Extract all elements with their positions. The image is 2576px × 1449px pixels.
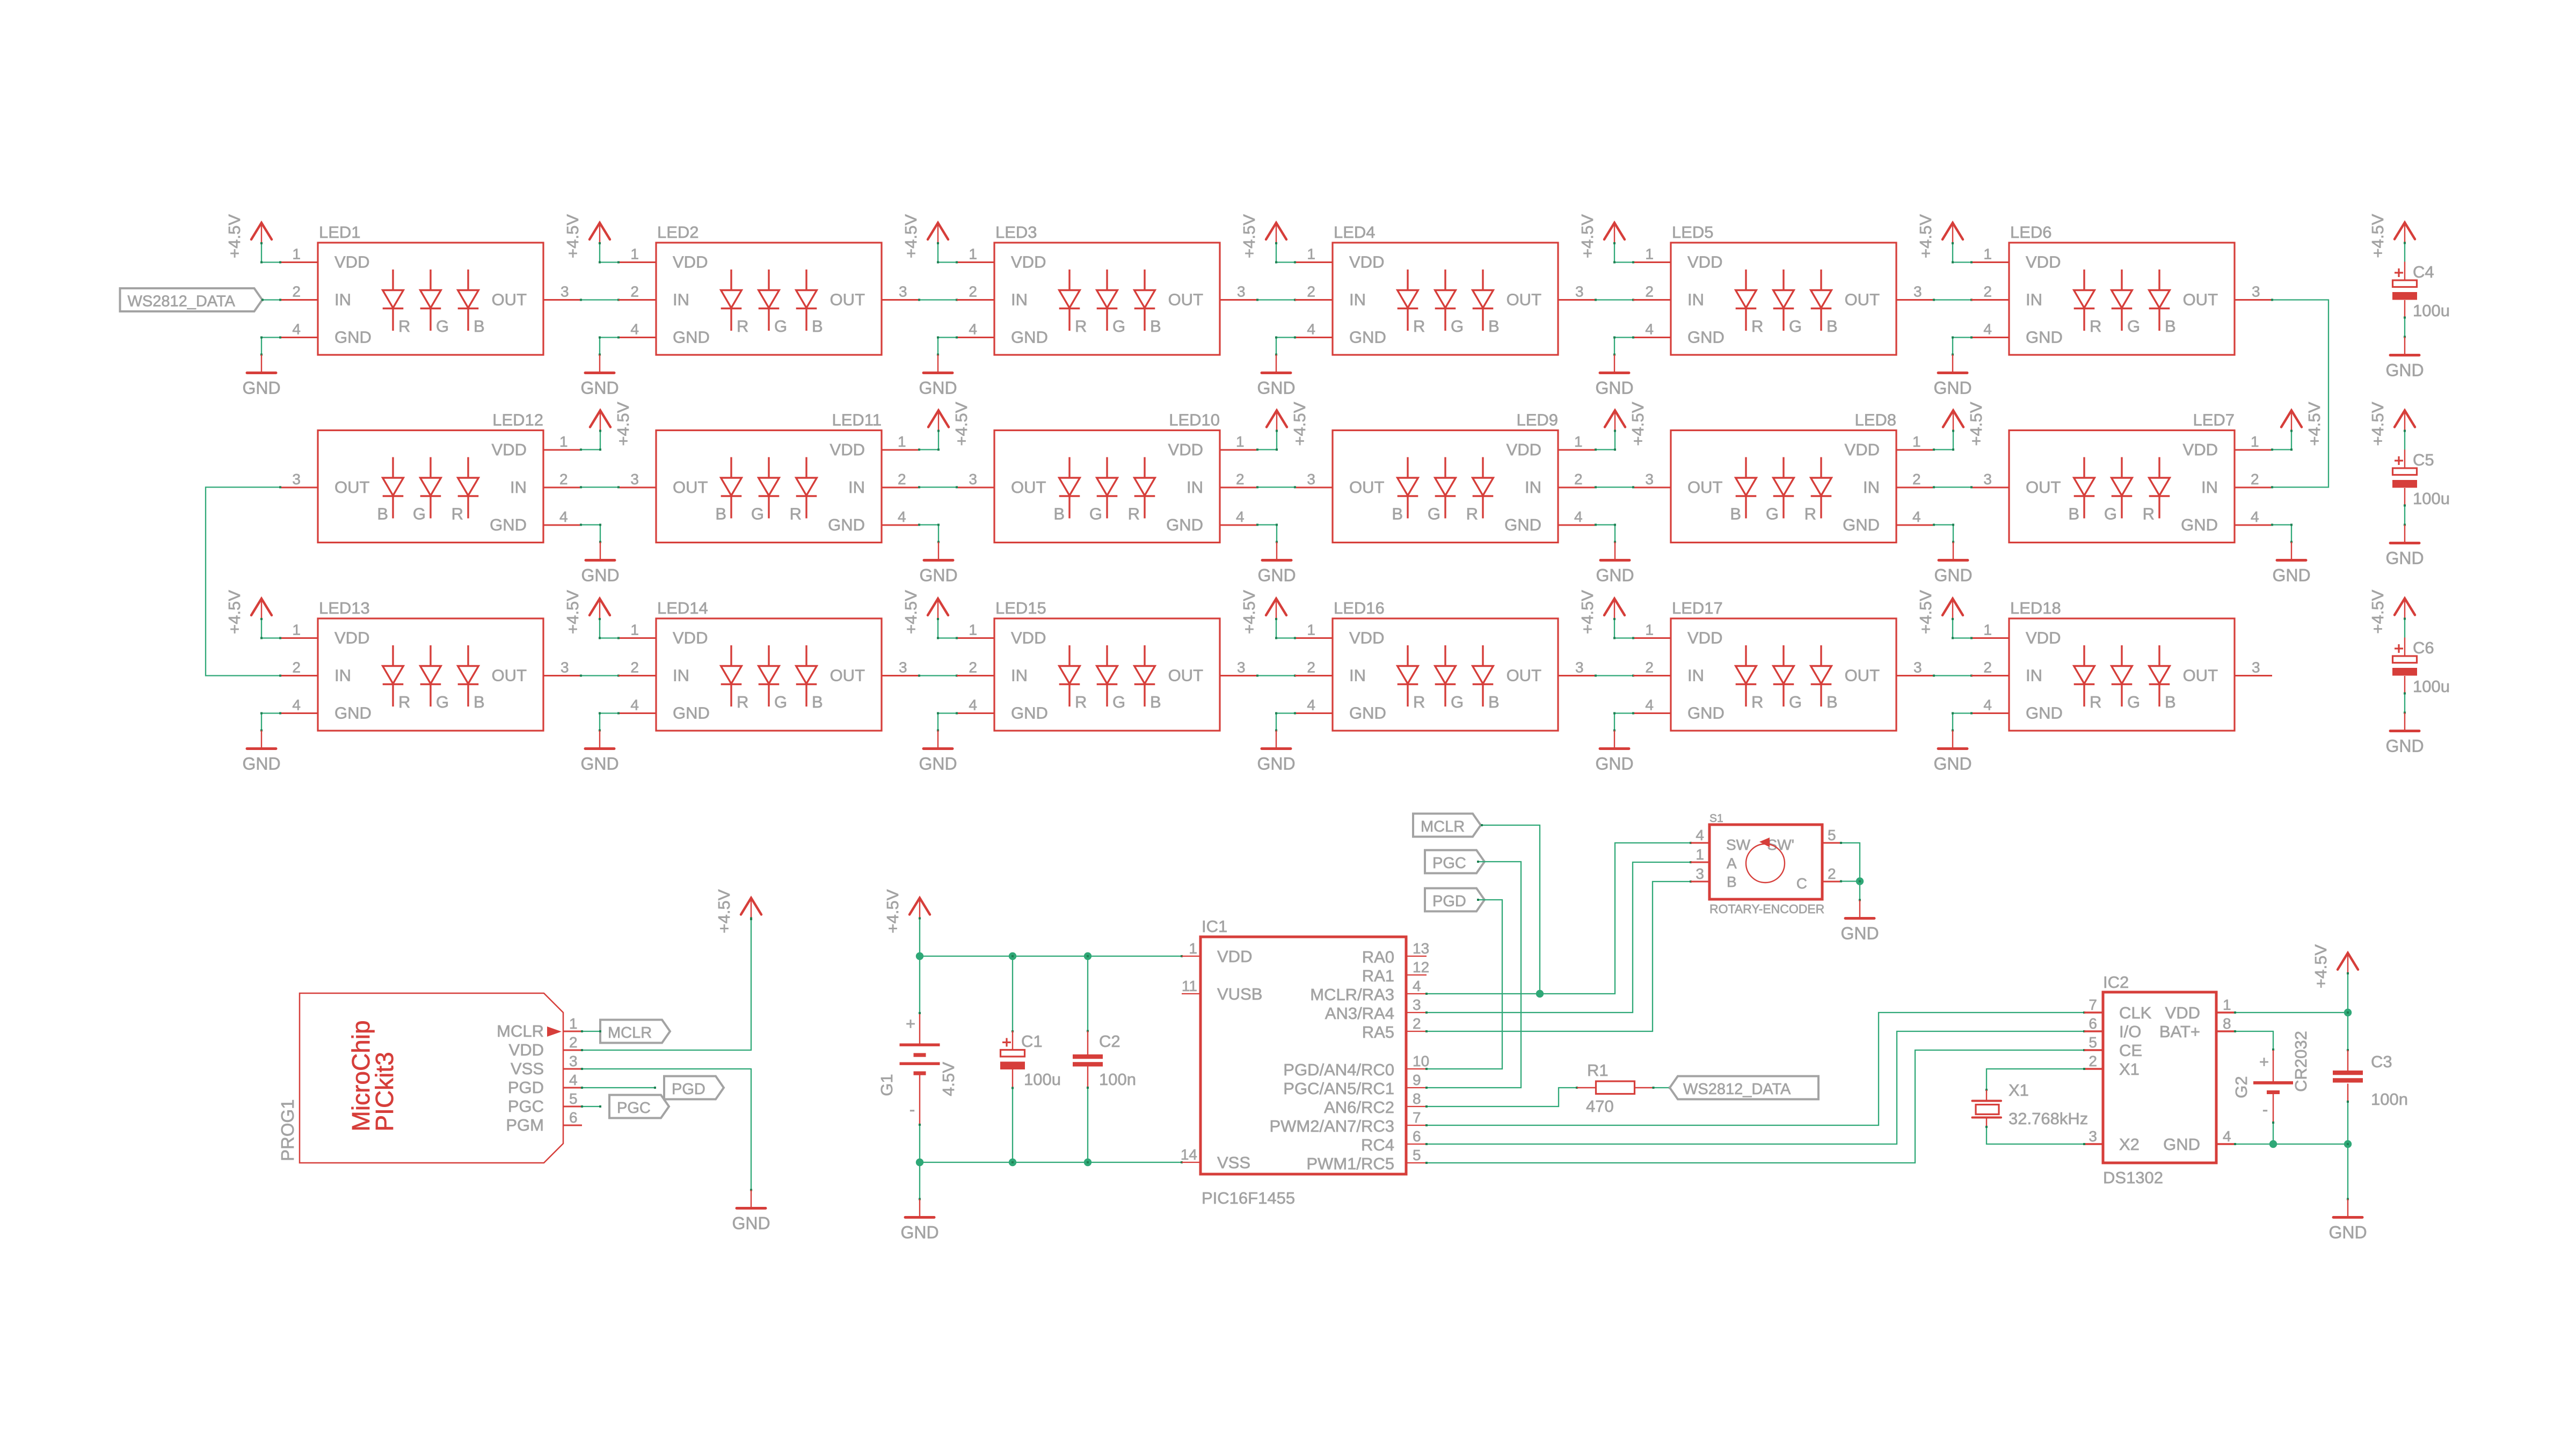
svg-text:2: 2 — [969, 283, 977, 300]
svg-text:GND: GND — [580, 378, 618, 398]
svg-text:IN: IN — [673, 290, 689, 309]
svg-text:VDD: VDD — [492, 440, 527, 459]
svg-text:+4.5V: +4.5V — [901, 590, 920, 634]
wire +4.5V rail to G1 plus — [919, 956, 920, 1013]
wire LED2.OUT to LED3.IN — [919, 299, 957, 300]
junction +4.5V rail at G1 — [916, 952, 923, 960]
wire LED12 pin1 to +4.5V — [581, 449, 600, 450]
wire LED9 pin1 to +4.5V — [1596, 449, 1615, 450]
svg-text:WS2812_DATA: WS2812_DATA — [1683, 1081, 1791, 1098]
wire LED1 pin4 to GND — [261, 337, 280, 338]
ground (LED13 GND) — [242, 712, 280, 774]
svg-text:LED17: LED17 — [1672, 599, 1723, 617]
wire LED18 pin4 to GND — [1953, 712, 1971, 713]
svg-text:B: B — [812, 693, 823, 711]
svg-text:OUT: OUT — [830, 666, 865, 685]
svg-text:1: 1 — [1645, 246, 1654, 263]
wire LED16.OUT to LED17.IN — [1596, 675, 1633, 676]
svg-text:GND: GND — [1843, 515, 1880, 534]
svg-text:7: 7 — [1413, 1109, 1421, 1126]
svg-text:1: 1 — [1307, 622, 1315, 638]
supply +4.5V (cap C5) — [2368, 402, 2415, 449]
svg-text:GND: GND — [1011, 704, 1048, 723]
wire crystal to IC2.3 X2 — [1986, 1127, 2084, 1144]
svg-text:R: R — [1466, 505, 1478, 523]
C4 top lead — [2404, 262, 2405, 281]
LED module LED3 (WS2812) — [957, 223, 1257, 355]
wire IC1.5 RC5 to IC2.5 CE — [1427, 1050, 2084, 1163]
svg-text:GND: GND — [2272, 566, 2310, 585]
svg-text:R: R — [1413, 317, 1425, 336]
svg-text:GND: GND — [581, 566, 619, 585]
svg-text:GND: GND — [1595, 754, 1633, 774]
ground (LED2 GND) — [580, 337, 618, 398]
LED module LED15 (WS2812) — [957, 599, 1257, 731]
wire LED11 pin1 to +4.5V — [919, 449, 938, 450]
wire S1.5 to GND junction — [1841, 843, 1860, 882]
svg-text:+4.5V: +4.5V — [2311, 944, 2330, 988]
svg-text:PROG1: PROG1 — [278, 1099, 297, 1161]
svg-text:3: 3 — [969, 471, 977, 487]
supply +4.5V (LED1 VDD) — [225, 214, 272, 263]
svg-text:3: 3 — [899, 283, 907, 300]
svg-text:4: 4 — [1413, 978, 1421, 994]
svg-text:GND: GND — [900, 1223, 938, 1242]
svg-text:C3: C3 — [2371, 1052, 2392, 1071]
connector PROG1 (MicroChip PICkit3) — [278, 993, 582, 1163]
svg-text:GND: GND — [2026, 328, 2063, 347]
svg-text:PWM1/RC5: PWM1/RC5 — [1306, 1154, 1394, 1173]
svg-text:GND: GND — [1257, 378, 1295, 398]
svg-text:+4.5V: +4.5V — [1578, 214, 1597, 258]
svg-text:VDD: VDD — [830, 440, 865, 459]
svg-text:B: B — [1150, 317, 1161, 336]
svg-text:R: R — [398, 317, 410, 336]
svg-text:3: 3 — [630, 471, 639, 487]
C6 top lead — [2404, 638, 2405, 657]
net label flag PGC at PROG1 — [609, 1095, 669, 1118]
IC U IC1 (PIC16F1455) — [1181, 917, 1429, 1207]
wire LED5.OUT to LED6.IN — [1934, 299, 1971, 300]
svg-text:OUT: OUT — [2183, 666, 2218, 685]
svg-text:C5: C5 — [2413, 450, 2434, 469]
svg-text:1: 1 — [1912, 433, 1921, 450]
wire LED14 pin4 to GND — [600, 712, 618, 713]
svg-text:LED1: LED1 — [319, 223, 361, 242]
LED module LED1 (WS2812) — [280, 223, 581, 355]
svg-text:3: 3 — [561, 659, 569, 676]
svg-text:3: 3 — [292, 471, 301, 487]
svg-text:+4.5V: +4.5V — [563, 590, 582, 634]
wire LED5 pin4 to GND — [1614, 337, 1633, 338]
junction GND net at C3 — [2344, 1140, 2352, 1148]
wire LED2 pin4 to GND — [600, 337, 618, 338]
wire LED8 pin4 to GND — [1934, 524, 1953, 525]
svg-text:LED13: LED13 — [319, 599, 370, 617]
LED module LED17 (WS2812) — [1633, 599, 1934, 731]
wire rail down to C1 — [1012, 956, 1013, 1031]
svg-text:+4.5V: +4.5V — [1967, 402, 1985, 446]
svg-text:8: 8 — [1413, 1090, 1421, 1107]
svg-text:+4.5V: +4.5V — [883, 889, 902, 933]
ground (LED3 GND) — [919, 337, 957, 398]
LED module LED16 (WS2812) — [1295, 599, 1596, 731]
svg-text:1: 1 — [559, 433, 568, 450]
LED module LED14 (WS2812) — [618, 599, 919, 731]
svg-text:3: 3 — [1237, 659, 1246, 676]
svg-text:S1: S1 — [1709, 812, 1723, 825]
svg-text:3: 3 — [899, 659, 907, 676]
svg-text:100u: 100u — [2413, 677, 2450, 696]
svg-text:GND: GND — [2181, 515, 2218, 534]
svg-text:4: 4 — [969, 697, 977, 713]
svg-text:VSS: VSS — [1217, 1153, 1250, 1172]
svg-text:2: 2 — [1574, 471, 1583, 487]
wire C1 to GND rail — [1012, 1088, 1013, 1163]
wire +4.5V to LED15 pin1 — [938, 637, 957, 638]
wire R1 to WS2812_DATA flag — [1654, 1087, 1670, 1088]
junction MCLR net — [1536, 990, 1544, 997]
svg-text:6: 6 — [2089, 1015, 2097, 1032]
svg-text:9: 9 — [1413, 1072, 1421, 1088]
svg-text:C1: C1 — [1021, 1032, 1043, 1051]
junction GND net at G2 — [2269, 1140, 2277, 1148]
svg-text:4: 4 — [969, 321, 977, 338]
ground (IC2/C3) — [2328, 1143, 2367, 1242]
LED module LED9 (WS2812) — [1295, 411, 1596, 543]
capacitor C5 (polarized 100u) — [2392, 450, 2450, 508]
svg-text:G: G — [413, 505, 426, 523]
svg-text:3: 3 — [1983, 471, 1992, 487]
wire IC2.2 X1 to crystal — [1986, 1069, 2084, 1090]
svg-text:GND: GND — [2328, 1223, 2367, 1242]
svg-text:12: 12 — [1413, 959, 1429, 975]
wire LED12 pin4 to GND — [581, 524, 600, 525]
svg-text:GND: GND — [1257, 754, 1295, 774]
wire LED10 pin4 to GND — [1257, 524, 1277, 525]
wire IC2.1 VDD to +4.5V — [2235, 1012, 2348, 1013]
wire LED11 pin4 to GND — [919, 524, 938, 525]
supply +4.5V (LED17 VDD) — [1578, 590, 1625, 638]
LED module LED11 (WS2812) — [618, 411, 919, 543]
ground (LED18 GND) — [1933, 712, 1971, 774]
svg-text:X1: X1 — [2009, 1081, 2029, 1100]
svg-text:2: 2 — [1645, 659, 1654, 676]
junction S1 common — [1856, 877, 1864, 885]
svg-text:R: R — [1128, 505, 1140, 523]
svg-text:R: R — [2090, 693, 2101, 711]
supply +4.5V (LED15 VDD) — [901, 590, 948, 638]
svg-text:2: 2 — [1307, 659, 1315, 676]
svg-text:1: 1 — [569, 1015, 578, 1032]
svg-text:VDD: VDD — [2026, 253, 2061, 272]
ground (G1) — [900, 1161, 938, 1242]
svg-text:1: 1 — [1983, 622, 1992, 638]
wire IC1.3 AN3/RA4 to S1 pinA — [1427, 862, 1691, 1013]
junction GND rail at C2 — [1084, 1159, 1091, 1166]
svg-text:PWM2/AN7/RC3: PWM2/AN7/RC3 — [1269, 1117, 1394, 1135]
wire PROG1.3 VSS to GND — [582, 1069, 751, 1190]
svg-text:+4.5V: +4.5V — [2368, 402, 2387, 446]
svg-text:+4.5V: +4.5V — [1240, 214, 1258, 258]
svg-text:R: R — [2143, 505, 2155, 523]
svg-text:100u: 100u — [2413, 489, 2450, 508]
svg-text:OUT: OUT — [1011, 478, 1046, 497]
LED module LED5 (WS2812) — [1633, 223, 1934, 355]
svg-text:VDD: VDD — [1687, 253, 1722, 272]
svg-text:+: + — [2259, 1052, 2269, 1071]
svg-text:OUT: OUT — [1687, 478, 1723, 497]
wire IC1.8 AN6/RC2 to R1 — [1427, 1088, 1577, 1106]
ground (LED9 GND) — [1596, 524, 1634, 585]
svg-text:+4.5V: +4.5V — [1916, 590, 1935, 634]
wire +4.5V to LED4 pin1 — [1276, 261, 1295, 263]
svg-text:5: 5 — [1828, 827, 1836, 843]
svg-text:LED8: LED8 — [1854, 411, 1896, 429]
svg-text:32.768kHz: 32.768kHz — [2009, 1109, 2088, 1128]
wire LED12.OUT to LED13.IN — [206, 487, 280, 676]
wire LED9.OUT to LED8.IN — [1596, 486, 1633, 487]
svg-text:+4.5V: +4.5V — [1578, 590, 1597, 634]
svg-text:4: 4 — [2251, 508, 2259, 525]
svg-text:B: B — [1488, 693, 1500, 711]
svg-text:VDD: VDD — [1168, 440, 1203, 459]
svg-text:R: R — [1075, 693, 1087, 711]
svg-text:PGC: PGC — [1432, 855, 1466, 872]
svg-text:G: G — [2127, 693, 2140, 711]
LED module LED8 (WS2812) — [1633, 411, 1934, 543]
ground (LED17 GND) — [1595, 712, 1633, 774]
supply +4.5V (LED14 VDD) — [563, 590, 610, 638]
wire +4.5V to LED1 pin1 — [261, 261, 280, 263]
svg-text:3: 3 — [1413, 996, 1421, 1013]
svg-text:IN: IN — [1011, 290, 1028, 309]
svg-text:+: + — [906, 1014, 915, 1033]
svg-text:G: G — [1112, 693, 1125, 711]
LED module LED13 (WS2812) — [280, 599, 581, 731]
svg-text:X1: X1 — [2119, 1060, 2140, 1079]
wire +4.5V to LED2 pin1 — [600, 261, 618, 263]
svg-text:VSS: VSS — [511, 1059, 544, 1078]
svg-text:GND: GND — [1595, 378, 1633, 398]
svg-text:G: G — [1428, 505, 1440, 523]
svg-text:VDD: VDD — [334, 253, 369, 272]
wire +4.5V to LED17 pin1 — [1614, 637, 1633, 638]
svg-text:R: R — [737, 693, 748, 711]
svg-text:R: R — [790, 505, 802, 523]
svg-text:LED14: LED14 — [657, 599, 708, 617]
svg-text:LED10: LED10 — [1169, 411, 1220, 429]
svg-text:PGD: PGD — [1432, 893, 1466, 910]
svg-text:1: 1 — [969, 246, 977, 263]
supply +4.5V (LED18 VDD) — [1916, 590, 1963, 638]
svg-text:3: 3 — [2252, 659, 2260, 676]
supply +4.5V (LED4 VDD) — [1240, 214, 1286, 263]
svg-text:CLK: CLK — [2119, 1003, 2152, 1022]
ground (S1) — [1840, 880, 1879, 943]
net label flag MCLR at IC1 — [1413, 814, 1481, 837]
svg-text:LED15: LED15 — [995, 599, 1046, 617]
svg-text:GND: GND — [1349, 328, 1386, 347]
svg-text:B: B — [1827, 693, 1838, 711]
C1 top lead — [1012, 1031, 1013, 1050]
svg-text:-: - — [909, 1100, 915, 1119]
wire LED14.OUT to LED15.IN — [919, 675, 957, 676]
svg-text:470: 470 — [1586, 1097, 1614, 1116]
svg-text:C4: C4 — [2413, 263, 2434, 281]
svg-text:GND: GND — [242, 378, 280, 398]
svg-text:GND: GND — [2026, 704, 2063, 723]
svg-text:8: 8 — [2223, 1015, 2231, 1032]
svg-text:1: 1 — [898, 433, 906, 450]
net label flag PGD at IC1 — [1425, 889, 1485, 912]
svg-text:G: G — [436, 317, 449, 336]
supply +4.5V (LED5 VDD) — [1578, 214, 1625, 263]
wire IC2.8 BAT+ to G2 — [2235, 1031, 2273, 1050]
svg-text:IN: IN — [848, 478, 865, 497]
svg-text:R: R — [2090, 317, 2101, 336]
wire LED8 pin1 to +4.5V — [1934, 449, 1953, 450]
ground (LED11 GND) — [919, 524, 957, 585]
ground (LED5 GND) — [1595, 337, 1633, 398]
svg-text:VDD: VDD — [673, 629, 708, 647]
svg-text:GND: GND — [1933, 378, 1971, 398]
svg-text:+4.5V: +4.5V — [1290, 402, 1309, 446]
wire LED15 pin4 to GND — [938, 712, 957, 713]
svg-text:2: 2 — [292, 283, 301, 300]
svg-text:2: 2 — [292, 659, 301, 676]
svg-text:IN: IN — [1687, 290, 1704, 309]
svg-text:3: 3 — [569, 1053, 578, 1069]
svg-text:GND: GND — [1504, 515, 1541, 534]
svg-text:4: 4 — [292, 321, 301, 338]
svg-text:3: 3 — [1913, 659, 1922, 676]
svg-text:IN: IN — [334, 290, 351, 309]
wire LED7 pin4 to GND — [2272, 524, 2291, 525]
svg-text:13: 13 — [1413, 940, 1429, 957]
svg-text:VDD: VDD — [2183, 440, 2218, 459]
svg-text:RA1: RA1 — [1362, 966, 1394, 985]
svg-text:4: 4 — [630, 321, 639, 338]
LED module LED2 (WS2812) — [618, 223, 919, 355]
svg-text:GND: GND — [2385, 361, 2424, 380]
svg-text:4: 4 — [1307, 697, 1315, 713]
svg-text:IN: IN — [1011, 666, 1028, 685]
battery G2 (CR2032) — [2232, 1031, 2310, 1123]
svg-text:3: 3 — [1913, 283, 1922, 300]
svg-text:MCLR: MCLR — [497, 1022, 544, 1040]
svg-text:C: C — [1796, 875, 1807, 892]
svg-text:C2: C2 — [1099, 1032, 1120, 1051]
supply +4.5V (IC2 VDD) — [2311, 944, 2358, 1013]
svg-text:IN: IN — [2026, 666, 2042, 685]
LED module LED10 (WS2812) — [957, 411, 1257, 543]
LED module LED12 (WS2812) — [280, 411, 581, 543]
svg-text:VDD: VDD — [1349, 629, 1384, 647]
svg-text:2: 2 — [969, 659, 977, 676]
svg-text:OUT: OUT — [1168, 666, 1204, 685]
svg-text:GND: GND — [919, 754, 957, 774]
svg-text:+4.5V: +4.5V — [1628, 402, 1647, 446]
wire PROG1.4 to PGD flag — [582, 1087, 655, 1088]
svg-text:R: R — [1075, 317, 1087, 336]
svg-text:A: A — [1727, 855, 1737, 872]
svg-text:LED3: LED3 — [995, 223, 1037, 242]
svg-text:2: 2 — [630, 659, 639, 676]
svg-text:G1: G1 — [877, 1074, 896, 1096]
wire IC1.2 RA5 to S1 pinB — [1427, 882, 1691, 1031]
svg-text:2: 2 — [2251, 471, 2259, 487]
svg-text:PGD: PGD — [672, 1081, 705, 1098]
svg-text:1: 1 — [1189, 940, 1197, 957]
svg-text:2: 2 — [1236, 471, 1245, 487]
svg-text:IN: IN — [1525, 478, 1541, 497]
svg-text:SW: SW — [1726, 836, 1751, 853]
svg-text:100u: 100u — [1024, 1070, 1061, 1089]
svg-text:B: B — [377, 505, 388, 523]
svg-text:RA5: RA5 — [1362, 1023, 1394, 1042]
svg-text:G: G — [2104, 505, 2117, 523]
svg-text:VDD: VDD — [1687, 629, 1722, 647]
svg-text:RC4: RC4 — [1361, 1135, 1394, 1154]
svg-text:1: 1 — [292, 622, 301, 638]
svg-text:LED16: LED16 — [1334, 599, 1385, 617]
svg-text:VDD: VDD — [2165, 1003, 2200, 1022]
battery G1 (4.5V) — [877, 1013, 958, 1125]
svg-text:OUT: OUT — [492, 290, 527, 309]
wire S1.2 to GND junction — [1841, 880, 1860, 882]
svg-text:VUSB: VUSB — [1217, 985, 1262, 1003]
wire LED7 pin1 to +4.5V — [2272, 449, 2291, 450]
svg-text:2: 2 — [559, 471, 568, 487]
svg-text:GND: GND — [1840, 924, 1879, 943]
svg-text:LED6: LED6 — [2010, 223, 2052, 242]
svg-text:4: 4 — [1912, 508, 1921, 525]
wire +4.5V to LED14 pin1 — [600, 637, 618, 638]
wire GND bottom rail to IC1.VSS — [920, 1162, 1182, 1163]
svg-text:IN: IN — [510, 478, 527, 497]
crystal X1 (32.768kHz) — [1973, 1081, 2089, 1128]
svg-text:4.5V: 4.5V — [939, 1062, 958, 1096]
svg-text:GND: GND — [828, 515, 865, 534]
svg-text:B: B — [715, 505, 726, 523]
svg-text:GND: GND — [673, 704, 710, 723]
supply +4.5V (LED16 VDD) — [1240, 590, 1286, 638]
svg-text:4: 4 — [569, 1072, 578, 1088]
svg-text:GND: GND — [490, 515, 527, 534]
wire LED4 pin4 to GND — [1276, 337, 1295, 338]
svg-text:G: G — [1112, 317, 1125, 336]
supply +4.5V (LED8 VDD) — [1943, 402, 1985, 449]
supply +4.5V (LED11 VDD) — [928, 402, 971, 449]
capacitor C4 (polarized 100u) — [2392, 263, 2450, 320]
svg-text:AN3/RA4: AN3/RA4 — [1325, 1004, 1394, 1023]
svg-text:DS1302: DS1302 — [2103, 1168, 2163, 1187]
svg-text:2: 2 — [569, 1034, 578, 1051]
svg-text:14: 14 — [1181, 1146, 1197, 1163]
wire rail down to C2 — [1087, 956, 1088, 1031]
svg-text:1: 1 — [1236, 433, 1245, 450]
svg-text:IC1: IC1 — [1202, 917, 1227, 936]
ground (LED8 GND) — [1934, 524, 1972, 585]
svg-text:PICkit3: PICkit3 — [370, 1052, 398, 1131]
svg-text:-: - — [2262, 1100, 2268, 1119]
supply +4.5V (LED2 VDD) — [563, 214, 610, 263]
svg-text:4: 4 — [559, 508, 568, 525]
svg-text:B: B — [1392, 505, 1403, 523]
svg-text:B: B — [2165, 317, 2176, 336]
svg-text:B: B — [474, 317, 485, 336]
